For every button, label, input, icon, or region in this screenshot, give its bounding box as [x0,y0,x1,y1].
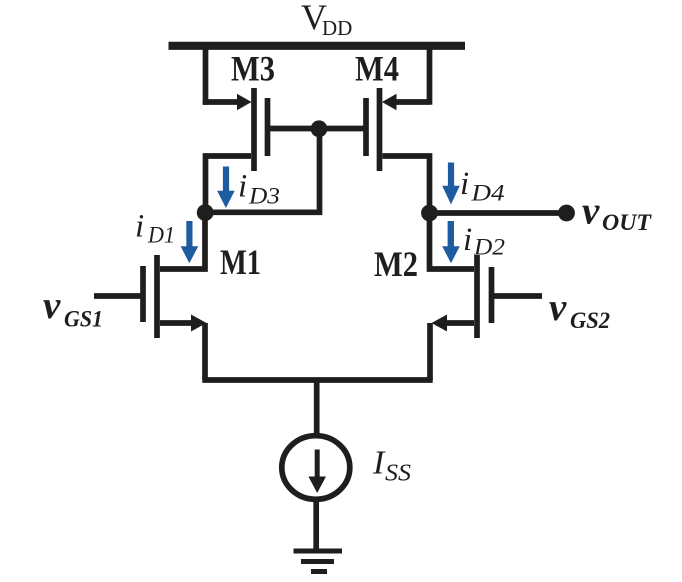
svg-text:i: i [460,166,469,202]
svg-text:M4: M4 [355,49,399,89]
svg-text:M2: M2 [374,244,418,284]
svg-text:i: i [135,209,144,245]
svg-text:D2: D2 [473,235,505,260]
svg-text:v: v [582,190,600,233]
svg-text:GS2: GS2 [570,308,610,333]
svg-text:i: i [238,169,247,205]
svg-text:M3: M3 [231,49,275,89]
svg-text:D4: D4 [470,181,504,206]
svg-text:SS: SS [385,461,411,487]
svg-text:I: I [372,445,386,482]
svg-text:OUT: OUT [602,210,652,235]
svg-text:D3: D3 [248,184,280,209]
svg-text:D1: D1 [147,223,175,248]
svg-text:v: v [549,286,567,329]
svg-text:v: v [43,284,61,327]
svg-text:i: i [463,222,472,258]
svg-text:DD: DD [322,16,352,40]
svg-text:M1: M1 [220,242,261,282]
svg-text:GS1: GS1 [64,307,103,332]
